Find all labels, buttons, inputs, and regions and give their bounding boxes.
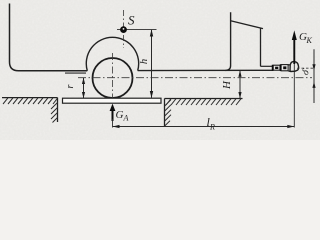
l_R left arrowhead: [113, 125, 120, 128]
coupling centerline extension (dotted): [297, 67, 313, 69]
l_R left extension line: [112, 119, 114, 128]
svg-text:G: G: [116, 109, 124, 121]
H bottom arrowhead: [238, 92, 241, 99]
delta dimension line: [313, 49, 315, 103]
H dimension line: [239, 70, 241, 98]
left pit wall: [57, 98, 59, 122]
G_K force arrow: [293, 37, 295, 64]
wheel: [93, 58, 133, 98]
r bottom arrowhead: [82, 92, 85, 98]
coupling vertical reference line: [293, 60, 295, 128]
right ground hatching: [166, 99, 241, 105]
l_R right arrowhead: [287, 125, 294, 128]
coupling head: [290, 62, 299, 72]
svg-text:A: A: [123, 114, 129, 123]
lower sill line: [65, 72, 86, 74]
svg-text:R: R: [209, 123, 215, 132]
wheel vertical centerline: [112, 53, 114, 103]
svg-text:S: S: [128, 13, 135, 28]
S extension line: [117, 29, 157, 31]
h top arrowhead: [150, 29, 153, 36]
H top arrowhead: [238, 70, 241, 77]
center of gravity S marker: [120, 26, 127, 33]
paper background: [0, 0, 320, 140]
svg-text:r: r: [65, 84, 76, 88]
delta upper arrowhead (pointing down): [312, 64, 315, 70]
right pit wall hatching: [165, 100, 171, 126]
rear wall with rounded bottom corner: [226, 12, 231, 70]
G_A force arrow: [112, 109, 114, 121]
svg-text:K: K: [306, 36, 313, 45]
weighbridge platform: [63, 98, 162, 103]
h bottom arrowhead: [150, 91, 153, 98]
right ground surface line: [165, 98, 243, 100]
left ground surface line: [2, 97, 58, 99]
r top arrowhead: [82, 78, 85, 84]
left pit wall hatching: [51, 103, 58, 123]
fender arch: [86, 37, 138, 70]
drawbar top line: [261, 65, 274, 67]
trailer body left edge and bottom-left line: [10, 4, 88, 71]
l_R dimension line: [113, 126, 295, 128]
delta lower arrowhead (pointing up): [312, 82, 315, 88]
coupling housing: [273, 64, 289, 71]
r dimension line: [83, 78, 85, 98]
sloped front top line: [231, 21, 263, 29]
h dimension line: [151, 30, 153, 98]
CG vertical centerline: [123, 10, 125, 48]
coupling neck: [288, 65, 290, 72]
svg-text:h: h: [139, 59, 150, 64]
left ground hatching: [3, 98, 58, 104]
body bottom line (right of fender, to drawbar tip): [138, 69, 274, 71]
svg-text:H: H: [221, 80, 233, 90]
horizontal axle centerline: [78, 77, 312, 79]
front vertical edge: [260, 28, 262, 67]
right pit wall: [164, 99, 166, 127]
